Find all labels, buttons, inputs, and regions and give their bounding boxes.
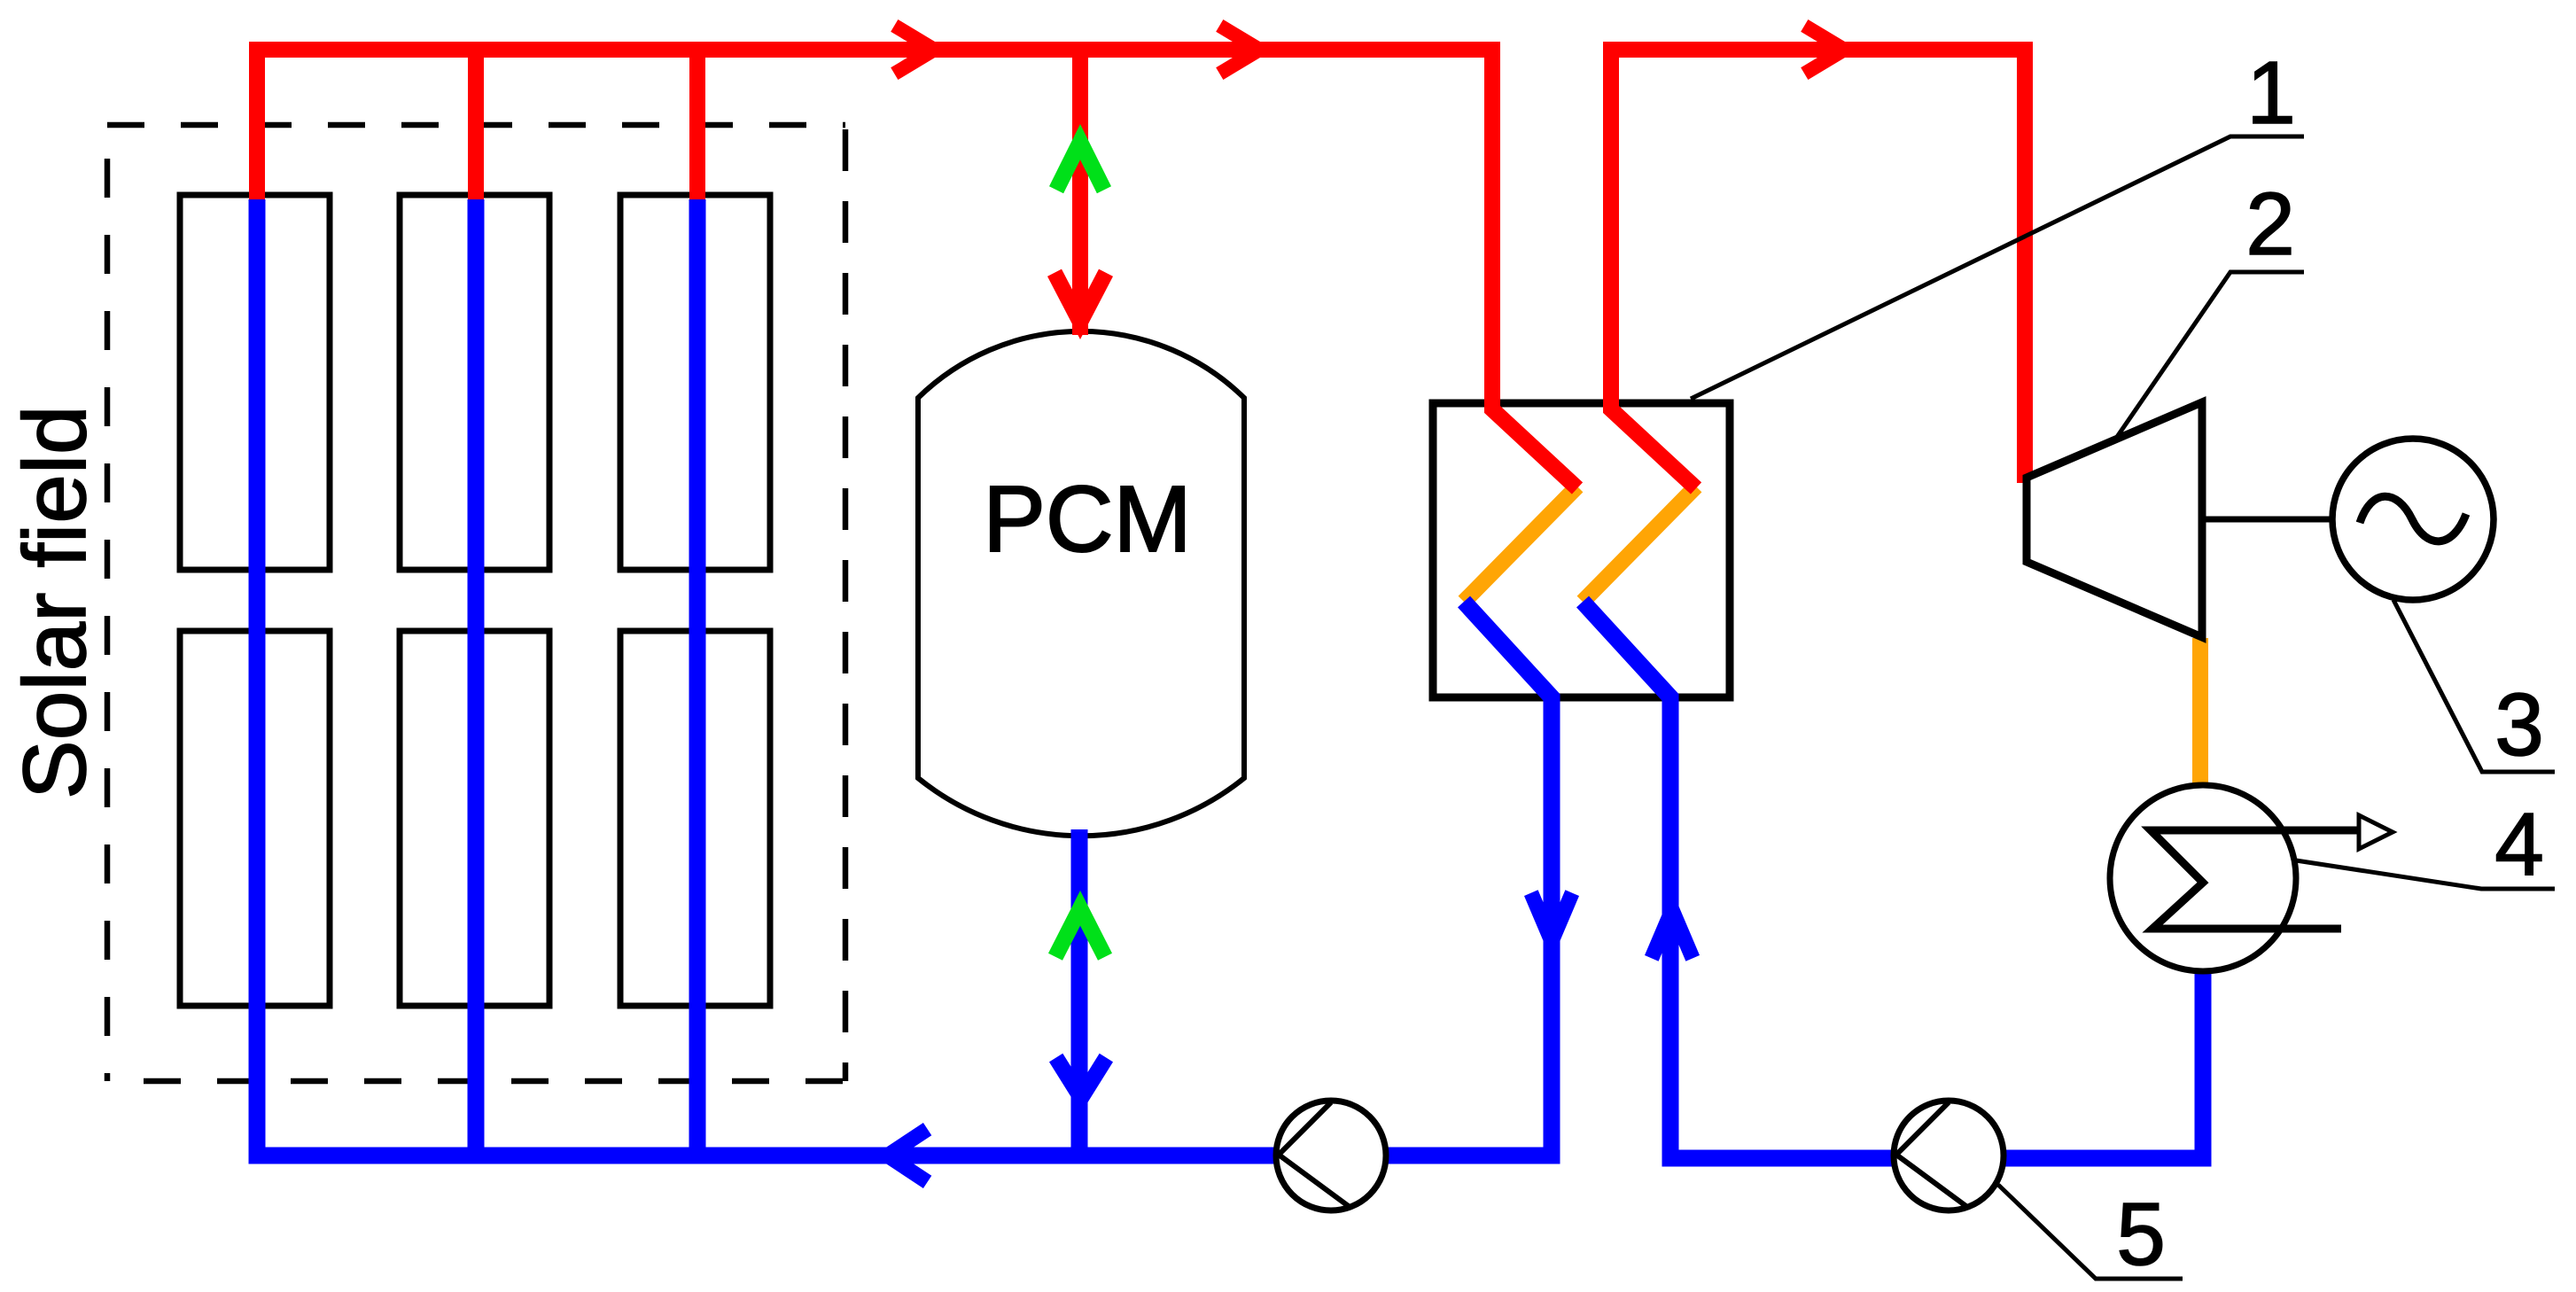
svg-text:2: 2 bbox=[2245, 175, 2295, 274]
svg-text:PCM: PCM bbox=[983, 467, 1192, 572]
svg-text:Solar field: Solar field bbox=[5, 405, 105, 799]
svg-text:4: 4 bbox=[2494, 795, 2544, 894]
svg-text:1: 1 bbox=[2246, 43, 2296, 143]
svg-text:5: 5 bbox=[2116, 1185, 2166, 1284]
svg-text:3: 3 bbox=[2494, 675, 2544, 774]
